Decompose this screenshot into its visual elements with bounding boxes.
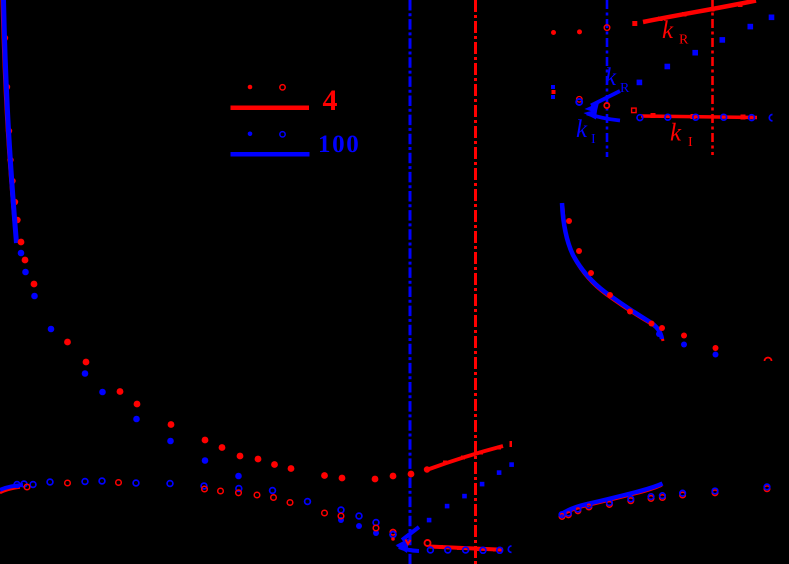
top-left steep blue curve xyxy=(4,0,17,243)
svg-text:I: I xyxy=(688,135,693,150)
blue arrow A (bottom) xyxy=(402,527,419,540)
far-left tail red xyxy=(0,488,20,494)
blue dots chain xyxy=(18,250,379,536)
blue arrow 1 xyxy=(591,91,620,106)
bottom-right red thin line xyxy=(560,486,663,518)
blue dots below curve xyxy=(656,331,719,358)
svg-text:I: I xyxy=(591,132,596,147)
red hook xyxy=(604,103,609,108)
blue arrow 2 xyxy=(587,114,620,121)
red dots under steep curve xyxy=(2,35,21,223)
svg-text:k: k xyxy=(576,116,588,143)
svg-text:k: k xyxy=(605,64,617,91)
flat open row blue xyxy=(14,478,396,537)
svg-text:R: R xyxy=(620,81,630,96)
red v mark xyxy=(406,540,411,545)
svg-text:4: 4 xyxy=(323,84,338,117)
svg-text:k: k xyxy=(670,120,682,147)
top-left steep red curve xyxy=(2,0,15,230)
red dots above curve xyxy=(566,218,719,351)
circles at 579 xyxy=(577,97,583,103)
red kI line xyxy=(641,116,757,118)
bottom-right open circle pairs xyxy=(559,486,770,519)
red ascending kR line xyxy=(643,1,756,23)
blue ascending squares xyxy=(427,462,514,522)
inset vertical dashdot blue x=607 xyxy=(606,0,609,157)
red horizontal line bottom xyxy=(429,547,503,550)
inset vertical dashdot red x=712.5 xyxy=(711,0,714,155)
blue open circles on kI line xyxy=(637,114,754,120)
flat open row red xyxy=(24,480,396,535)
svg-text:100: 100 xyxy=(318,131,360,158)
red open circle before line xyxy=(425,540,431,546)
legend xyxy=(248,85,253,90)
far-left tail blue xyxy=(0,485,23,490)
blue descending dots xyxy=(637,15,775,86)
middle-right descending curve red then blue xyxy=(563,206,663,341)
blue arrow B (bottom) xyxy=(399,547,419,551)
bottom-center inset: red ascending line xyxy=(427,446,504,470)
top-right inset: red top row xyxy=(551,30,556,35)
bottom cluster circles xyxy=(390,530,396,536)
main vertical dashdot red x=475.5 xyxy=(474,0,477,564)
svg-text:R: R xyxy=(679,33,689,48)
red dots chain xyxy=(18,239,415,483)
blue open circles on bottom line xyxy=(428,547,503,553)
main vertical dashdot blue x=410 xyxy=(409,0,412,564)
edge cluster markers x=553 xyxy=(551,85,555,89)
red arc mark right edge xyxy=(765,358,772,362)
bottom-right blue curve xyxy=(560,484,663,516)
svg-text:k: k xyxy=(662,17,674,44)
red open square xyxy=(632,108,637,113)
